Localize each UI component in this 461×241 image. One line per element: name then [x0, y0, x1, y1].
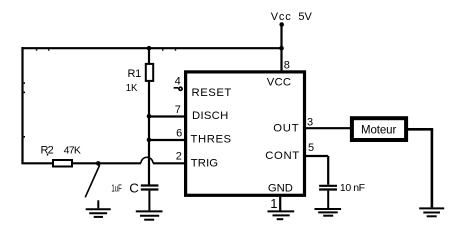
wire motor to ground	[408, 129, 433, 207]
svg-text:TRIG: TRIG	[191, 157, 218, 169]
wire stub tick top rail 4	[175, 49, 177, 50]
capacitor C	[141, 186, 159, 211]
op-amp U1 555 timer body	[186, 72, 305, 195]
wire timing node vertical	[148, 82, 150, 185]
svg-text:RESET: RESET	[192, 87, 232, 99]
svg-text:1uF: 1uF	[111, 182, 122, 194]
ground under 10nF	[315, 209, 342, 216]
wire left rail	[21, 47, 23, 163]
wire pin 7	[149, 115, 184, 117]
svg-text:7: 7	[175, 104, 181, 116]
capacitor 10nF	[319, 186, 337, 209]
wire stub tick near R2	[47, 154, 48, 156]
wire pin 5	[306, 156, 328, 185]
wire stub tick top rail 3	[162, 49, 164, 50]
motor block Moteur	[352, 118, 406, 140]
svg-text:Moteur: Moteur	[361, 124, 396, 136]
junction timing node / pin 6	[147, 138, 152, 143]
svg-text:6: 6	[176, 128, 182, 140]
svg-text:5V: 5V	[298, 11, 312, 23]
svg-text:5: 5	[308, 142, 314, 154]
svg-text:OUT: OUT	[273, 123, 298, 135]
svg-text:R1: R1	[128, 68, 142, 80]
svg-text:10 nF: 10 nF	[340, 182, 365, 194]
wire stub tick top rail 2	[48, 49, 50, 50]
wire top Vcc rail	[21, 47, 281, 49]
svg-text:GND: GND	[268, 182, 293, 194]
svg-text:1: 1	[270, 196, 277, 211]
svg-text:CONT: CONT	[265, 150, 299, 162]
resistor R1	[146, 47, 153, 81]
wire hop over timing node	[141, 157, 153, 163]
switch lever	[85, 165, 100, 197]
wire pin 6	[149, 139, 184, 141]
ground under C	[136, 211, 163, 219]
svg-text:THRES: THRES	[191, 134, 232, 146]
wire stub tick left rail 3	[24, 136, 25, 138]
svg-text:DISCH: DISCH	[192, 110, 228, 122]
wire stub tick left rail 1	[24, 82, 25, 84]
wire pin 3 to motor	[306, 127, 350, 129]
junction Vcc rail / pin-8 wire	[279, 46, 284, 51]
svg-text:2: 2	[176, 151, 182, 163]
svg-text:8: 8	[284, 60, 290, 72]
wire stub tick left rail 2	[24, 92, 25, 94]
junction R1 top on rail	[147, 46, 152, 51]
ground under switch	[86, 200, 111, 217]
svg-text:1K: 1K	[126, 82, 138, 94]
wire trigger net horizontal	[21, 162, 184, 164]
ground under pin 1	[268, 211, 295, 219]
wire Vcc drop to pin 8	[280, 25, 282, 71]
svg-text:3: 3	[307, 116, 313, 128]
svg-text:47K: 47K	[64, 145, 81, 157]
node Vcc terminal	[279, 22, 284, 27]
svg-text:VCC: VCC	[267, 77, 291, 89]
ground right of motor	[419, 208, 444, 216]
pin 4 stub with inversion bubble	[174, 87, 182, 90]
svg-text:C: C	[129, 181, 139, 196]
svg-text:Vcc: Vcc	[271, 11, 292, 23]
svg-text:4: 4	[175, 76, 181, 88]
junction switch on trigger net	[96, 161, 101, 166]
wire pin 1 to ground	[279, 197, 281, 212]
resistor R2	[53, 160, 72, 167]
junction timing node / pin 7	[147, 114, 152, 119]
wire stub tick top rail 1	[36, 49, 38, 50]
